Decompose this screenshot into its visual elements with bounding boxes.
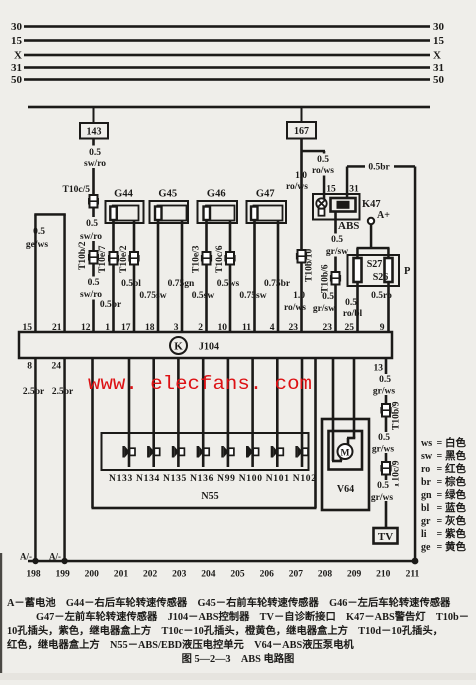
wire (G45 left to pin 18) [157, 220, 160, 332]
svg-text:S27: S27 [367, 259, 383, 270]
svg-text:ro/ws: ro/ws [312, 166, 334, 176]
valve N99 [221, 446, 234, 458]
svg-text:gn: gn [421, 490, 432, 501]
svg-text:=: = [437, 464, 443, 475]
legend gr [421, 514, 466, 527]
junction (terminal 211) [412, 558, 419, 565]
connector T10e/3 [201, 252, 212, 265]
svg-text:sw/ro: sw/ro [80, 232, 102, 242]
svg-text:201: 201 [114, 570, 129, 580]
svg-text:X: X [433, 50, 441, 62]
label 0.5 sw/ro [82, 146, 107, 169]
svg-text:0.5: 0.5 [331, 235, 343, 245]
svg-text:ro: ro [421, 464, 430, 475]
wire (0.5br to terminal 211) [347, 165, 415, 168]
svg-text:X: X [14, 50, 22, 62]
svg-text:0.75br: 0.75br [264, 279, 291, 289]
wire (G46 right to pin 10) [229, 221, 232, 333]
valve N101 [271, 446, 284, 458]
diagnostic connector TV [374, 528, 398, 544]
svg-text:0.75gn: 0.75gn [168, 279, 195, 289]
svg-text:=: = [437, 477, 443, 488]
svg-text:ABS: ABS [338, 220, 359, 232]
svg-text:gr/sw: gr/sw [326, 247, 348, 257]
label 0.5 gr/sw [325, 234, 351, 257]
svg-text:br: br [421, 477, 432, 488]
wire (K47 pin31 up) [346, 167, 349, 200]
label 0.5 ro/ws [311, 154, 336, 176]
terminal A+ [368, 218, 374, 224]
svg-text:2.5br: 2.5br [23, 387, 45, 397]
svg-text:24: 24 [52, 362, 62, 372]
svg-text:15: 15 [433, 35, 445, 47]
motor M symbol [338, 444, 353, 459]
svg-text:=: = [437, 451, 443, 462]
svg-text:15: 15 [11, 35, 23, 47]
wire (G47 left to pin 11) [253, 220, 256, 332]
svg-text:=: = [437, 516, 443, 527]
svg-text:T10c/5: T10c/5 [63, 185, 91, 195]
svg-text:白色: 白色 [445, 436, 466, 449]
svg-text:黄色: 黄色 [445, 540, 466, 553]
terminal 167 [287, 122, 316, 139]
svg-text:0.5br: 0.5br [368, 163, 390, 173]
wire (G44 right to pin 17) [133, 221, 136, 333]
wire (valve feed) [251, 358, 254, 467]
relay/lamp K47 [313, 194, 360, 220]
wire (143 to T10c/5) [92, 139, 95, 196]
wire (valve feed) [301, 358, 304, 467]
power bus 50 [11, 74, 445, 86]
svg-text:N55: N55 [201, 491, 218, 502]
svg-text:1.0: 1.0 [295, 171, 307, 181]
svg-text:ro/bl: ro/bl [343, 309, 363, 319]
svg-text:209: 209 [347, 570, 362, 580]
svg-text:13: 13 [374, 364, 384, 374]
connector T10c/6 [224, 252, 235, 265]
connector T10e/2 [128, 252, 139, 265]
legend bl [421, 501, 466, 514]
motor box [329, 431, 363, 470]
svg-text:J104: J104 [199, 342, 219, 353]
connector T10e/7 [108, 252, 119, 265]
svg-text:0.5: 0.5 [33, 227, 45, 237]
legend sw [421, 449, 466, 462]
connector T10c/5 [88, 195, 99, 208]
svg-text:167: 167 [294, 126, 309, 137]
svg-text:S26: S26 [373, 272, 389, 283]
wire (valve feed) [177, 358, 180, 467]
svg-text:ro/ws: ro/ws [286, 182, 308, 192]
svg-text:K47: K47 [362, 199, 381, 210]
svg-text:0.5: 0.5 [378, 433, 390, 443]
svg-text:ge: ge [421, 542, 431, 553]
svg-text:T10e/7: T10e/7 [98, 245, 108, 273]
svg-text:T10e/3: T10e/3 [192, 245, 202, 273]
svg-text:=: = [437, 542, 443, 553]
pump V64 (housing) [322, 419, 369, 510]
svg-text:0.5: 0.5 [345, 298, 357, 308]
valve N100 [246, 446, 259, 458]
junction [32, 558, 38, 564]
svg-text:0.5ws: 0.5ws [217, 279, 240, 289]
svg-text:红色，继电器盒上方 N55－ABS/EBD液压电控单元 V6: 红色，继电器盒上方 N55－ABS/EBD液压电控单元 V64－ABS液压泵电机 [7, 638, 354, 651]
wire (K47 to pin 23) [334, 212, 337, 333]
svg-text:0.75sw: 0.75sw [139, 291, 166, 301]
valve N136 [197, 446, 210, 458]
wire [92, 208, 95, 252]
svg-text:T10b/6: T10b/6 [321, 264, 331, 293]
svg-text:V64: V64 [337, 484, 354, 495]
wire (to motor box) [353, 358, 356, 438]
sensor G45 [150, 201, 189, 223]
svg-text:G44: G44 [114, 189, 133, 200]
svg-text:211: 211 [406, 570, 420, 580]
svg-text:T10b/10: T10b/10 [305, 248, 315, 282]
svg-text:li: li [421, 529, 427, 540]
wire (valve feed) [276, 358, 279, 467]
svg-text:207: 207 [289, 570, 304, 580]
svg-text:M: M [341, 449, 350, 459]
svg-text:0.5: 0.5 [377, 481, 389, 491]
svg-text:0.5: 0.5 [88, 278, 100, 288]
svg-text:31: 31 [11, 62, 22, 74]
svg-text:200: 200 [85, 570, 100, 580]
svg-text:P: P [404, 266, 411, 277]
svg-text:sw: sw [421, 451, 433, 462]
svg-text:棕色: 棕色 [444, 475, 466, 488]
svg-text:T10e/2: T10e/2 [119, 245, 129, 273]
svg-text:黑色: 黑色 [445, 449, 466, 462]
power bus X [14, 50, 441, 62]
svg-text:=: = [437, 438, 443, 449]
legend ws [421, 436, 466, 449]
legend li [421, 527, 466, 540]
label 0.5 sw/ro [80, 217, 104, 241]
sensor G44 [106, 201, 144, 223]
svg-text:ws: ws [421, 438, 432, 449]
svg-text:sw/ro: sw/ro [80, 290, 102, 300]
svg-text:gr/sw: gr/sw [313, 304, 335, 314]
wire (A+ to fuses) [370, 225, 373, 249]
svg-text:G46: G46 [207, 189, 226, 200]
svg-text:G47: G47 [256, 189, 275, 200]
svg-text:199: 199 [56, 570, 71, 580]
power bus 15 [11, 35, 445, 47]
legend ro [421, 462, 466, 475]
svg-text:www. elecfans. com: www. elecfans. com [88, 373, 312, 395]
wire (G46 left to pin 2) [205, 220, 208, 332]
svg-text:图 5—2—3 ABS 电路图: 图 5—2—3 ABS 电路图 [182, 652, 295, 665]
wire (pin 8 to ground bus) [34, 358, 37, 561]
connector T10b/2 [88, 251, 99, 264]
sensor G46 [198, 201, 238, 223]
wire (167 to pin 23) [300, 139, 303, 251]
junction [61, 558, 67, 564]
svg-text:gr/ws: gr/ws [373, 387, 395, 397]
svg-text:灰色: 灰色 [445, 514, 466, 527]
wire (upper horizontal feed) [28, 106, 430, 109]
svg-text:205: 205 [230, 570, 245, 580]
svg-text:206: 206 [260, 570, 275, 580]
svg-text:蓝色: 蓝色 [445, 501, 466, 514]
svg-text:143: 143 [87, 127, 102, 138]
svg-text:0.5: 0.5 [89, 148, 101, 158]
wire [301, 107, 303, 122]
label 0.5 gr/ws [371, 480, 395, 501]
connector T10b/6 [330, 272, 341, 285]
svg-text:G47－左前车轮转速传感器 J104－ABS控制器 TV－自: G47－左前车轮转速传感器 J104－ABS控制器 TV－自诊断接口 K47－A… [36, 610, 469, 623]
wire (S27 to pin 25) [356, 282, 359, 332]
svg-text:T10b/2: T10b/2 [78, 241, 88, 270]
svg-text:50: 50 [11, 74, 23, 86]
svg-text:T10c/6: T10c/6 [215, 245, 225, 273]
svg-text:sw/ro: sw/ro [84, 159, 106, 169]
svg-text:0.75sw: 0.75sw [239, 291, 266, 301]
svg-text:gr/ws: gr/ws [371, 493, 393, 503]
svg-text:0.5: 0.5 [317, 155, 329, 165]
valve block box [102, 433, 309, 470]
wire (ge/ws bracket) [34, 213, 66, 216]
wire (G45 right to pin 3) [181, 221, 184, 333]
svg-text:50: 50 [433, 74, 445, 86]
label 0.5 gr/ws [371, 432, 395, 453]
svg-text:198: 198 [26, 570, 41, 580]
sensor G47 [247, 201, 287, 223]
svg-text:30: 30 [433, 21, 445, 33]
svg-text:K: K [174, 341, 183, 353]
svg-text:0.5: 0.5 [322, 292, 334, 302]
valve N134 [147, 446, 160, 458]
svg-text:203: 203 [172, 570, 187, 580]
svg-text:=: = [437, 529, 443, 540]
svg-text:204: 204 [201, 570, 216, 580]
legend br [421, 475, 466, 488]
ground bus [28, 560, 416, 563]
wire (to pin 12) [92, 264, 95, 333]
svg-text:2.5br: 2.5br [52, 387, 74, 397]
power bus 31 [11, 62, 444, 74]
svg-text:0.5: 0.5 [379, 375, 391, 385]
power bus 30 [11, 21, 445, 33]
connector T10b/9 [380, 404, 391, 417]
wire (valve feed) [152, 358, 155, 467]
wire (pin 24 to ground bus) [63, 358, 66, 561]
label 0.5 gr/ws [374, 374, 398, 395]
wire (S26 to pin 9) [387, 282, 390, 332]
svg-text:绿色: 绿色 [445, 488, 466, 501]
wire (valve feed) [128, 358, 131, 467]
svg-text:10孔插头，紫色，继电器盒上方 T10c－10孔插头，橙黄色: 10孔插头，紫色，继电器盒上方 T10c－10孔插头，橙黄色，继电器盒上方 T1… [7, 624, 443, 637]
wire [0, 553, 2, 680]
svg-text:0.5: 0.5 [86, 219, 98, 229]
wire [300, 263, 303, 333]
wire (G44 left to pin 1) [112, 220, 115, 332]
svg-text:30: 30 [11, 21, 23, 33]
svg-text:=: = [437, 490, 443, 501]
svg-text:0.5ro: 0.5ro [371, 291, 392, 301]
svg-text:0.5br: 0.5br [100, 300, 122, 310]
svg-text:bl: bl [421, 503, 430, 514]
svg-text:A－蓄电池 G44－右后车轮转速传感器 G45－右前车轮转速: A－蓄电池 G44－右后车轮转速传感器 G45－右前车轮转速传感器 G46－左后… [7, 596, 451, 609]
wire [93, 107, 95, 123]
wire (pin 13 to TV) [385, 358, 388, 528]
svg-text:208: 208 [318, 570, 333, 580]
connector T10c/9 [380, 462, 391, 475]
svg-text:210: 210 [376, 570, 391, 580]
legend ge [421, 540, 466, 553]
svg-text:N133 N134 N135 N136 N99 N100 N: N133 N134 N135 N136 N99 N100 N101 N102 [109, 474, 316, 484]
wire (G47 right to pin 4) [277, 221, 280, 333]
svg-text:A+: A+ [377, 210, 390, 221]
control unit J104 [19, 332, 392, 358]
svg-text:0.5bl: 0.5bl [121, 279, 141, 289]
valve N133 [122, 446, 135, 458]
wire [0, 673, 476, 680]
svg-text:TV: TV [378, 531, 393, 543]
legend gn [421, 488, 466, 501]
svg-text:红色: 红色 [445, 462, 466, 475]
wire (branch to K47 pin 15) [302, 150, 326, 153]
svg-text:ge/ws: ge/ws [26, 240, 48, 250]
svg-text:gr/ws: gr/ws [372, 445, 394, 455]
label 0.5br [365, 159, 394, 172]
label 0.5 sw/ro [80, 277, 104, 300]
svg-text:紫色: 紫色 [445, 527, 466, 540]
svg-text:=: = [437, 503, 443, 514]
fuse box P [348, 255, 400, 286]
connector T10b/10 [296, 250, 307, 263]
svg-text:31: 31 [433, 62, 444, 74]
valve N102 [295, 446, 308, 458]
svg-text:0.5sw: 0.5sw [192, 291, 215, 301]
svg-text:202: 202 [143, 570, 158, 580]
svg-text:8: 8 [27, 362, 32, 372]
wire (to motor) [332, 358, 335, 461]
wire (valve feed) [227, 358, 230, 467]
hydraulic unit N55 (housing) [91, 358, 94, 508]
svg-text:1.0: 1.0 [293, 291, 305, 301]
svg-text:T10b/9: T10b/9 [392, 401, 402, 430]
terminal 143 [80, 123, 108, 139]
svg-text:gr: gr [421, 516, 431, 527]
svg-text:G45: G45 [158, 189, 177, 200]
svg-text:ro/ws: ro/ws [284, 303, 306, 313]
valve N135 [172, 446, 185, 458]
wire (valve feed) [202, 358, 205, 467]
